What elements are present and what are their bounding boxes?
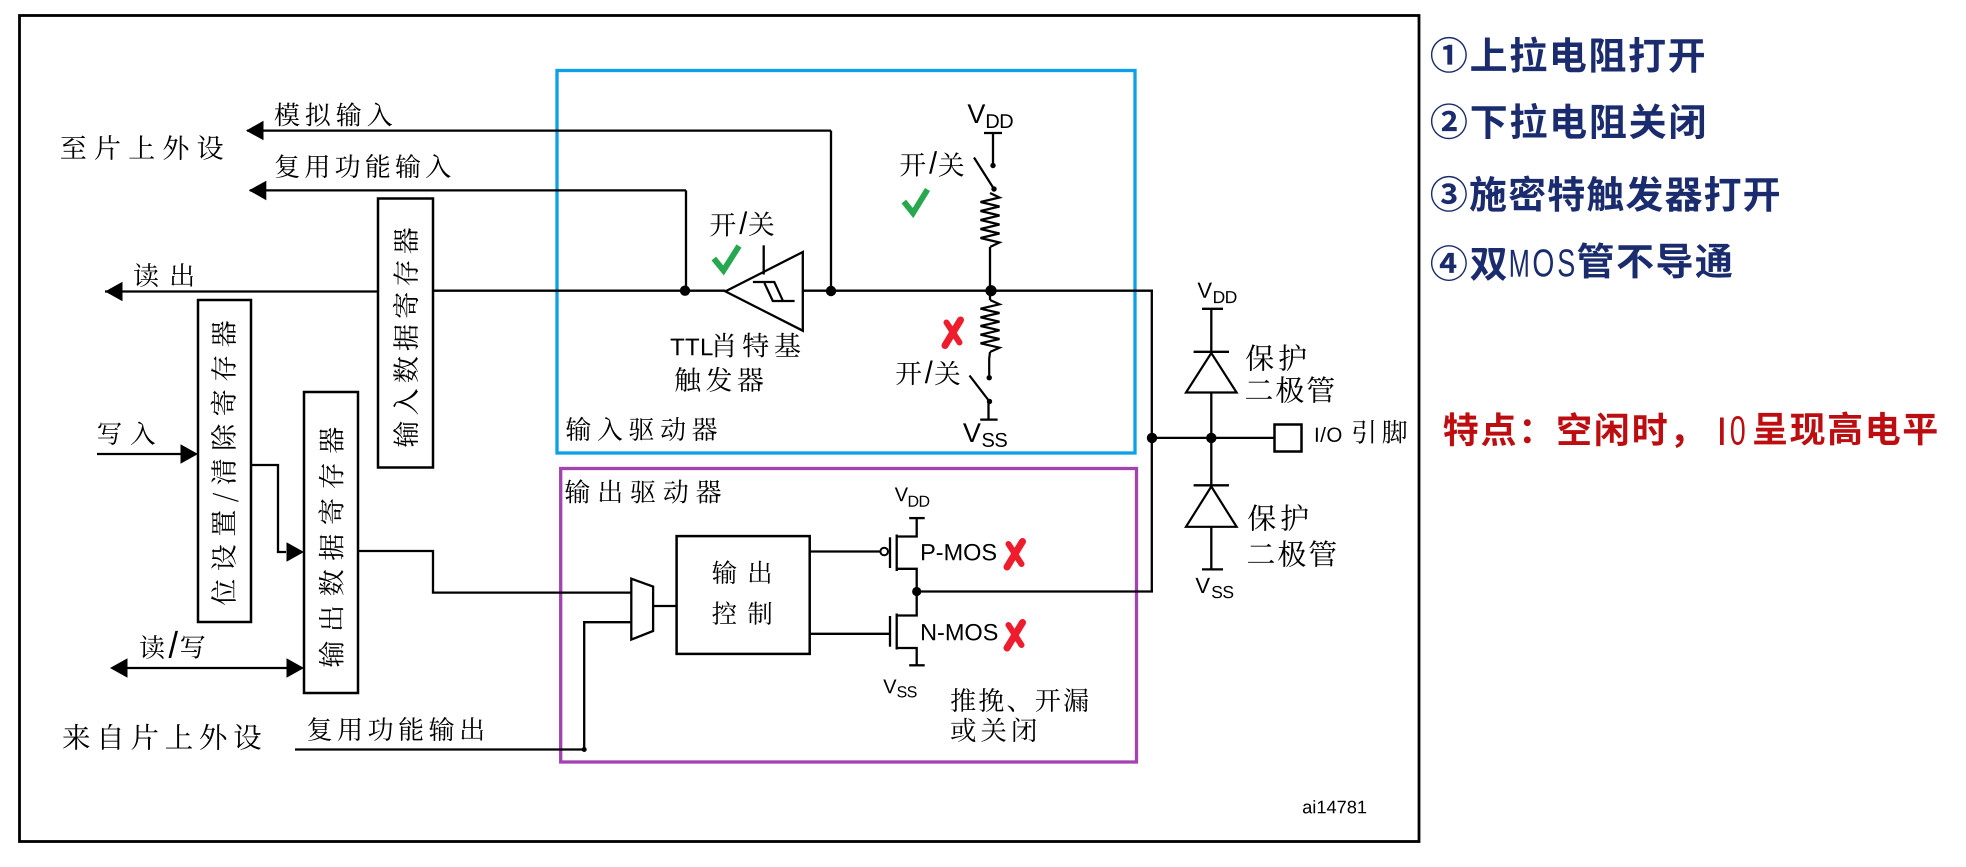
label: to on-chip peripherals xyxy=(61,135,223,160)
schmitt trigger hysteresis symbol xyxy=(753,282,783,300)
label: bit set/clear register (rotated) xyxy=(211,321,239,605)
node: IO vertical junction xyxy=(1147,433,1157,443)
label: VDD pull-up xyxy=(968,104,986,123)
register: bit set/clear xyxy=(198,300,251,622)
label: protection diode 2 xyxy=(1248,504,1308,531)
wire: mux output xyxy=(653,605,677,607)
node: AF output corner dot xyxy=(582,747,587,752)
label: TTL schmitt line1 xyxy=(671,339,713,356)
label: output control xyxy=(712,560,770,584)
wire: output register to mux xyxy=(358,551,631,593)
output control block xyxy=(677,536,810,654)
red cross: P-MOS off xyxy=(1007,542,1023,568)
pull-up switch xyxy=(990,163,995,168)
wire: vertical from analog line to trigger output xyxy=(830,131,832,291)
node: push-pull output xyxy=(912,587,921,596)
wire: read-out line xyxy=(105,290,378,292)
input driver box (blue) xyxy=(557,71,1135,454)
pull-down resistor xyxy=(989,291,991,300)
annotation 1: pull-up resistor on xyxy=(1431,36,1704,72)
pull-down switch xyxy=(987,375,992,380)
wire: alternate function input line xyxy=(250,189,686,191)
schmitt trigger: TTL xyxy=(725,252,802,331)
red cross: N-MOS off xyxy=(1007,623,1023,649)
wire: write arrow xyxy=(97,453,182,455)
VDD terminal of pull-up xyxy=(984,132,1002,134)
annotation 3: schmitt trigger on xyxy=(1431,175,1779,211)
node: trigger input xyxy=(680,286,690,296)
P-MOS plates xyxy=(889,537,891,568)
label: TTL schmitt line2 xyxy=(675,367,763,392)
label: protection diode 1 xyxy=(1246,344,1306,371)
label: output driver xyxy=(565,479,721,503)
label: VDD diodes xyxy=(1197,283,1211,298)
label: on/off schmitt xyxy=(711,213,736,237)
wire: trigger output to IO column xyxy=(803,290,1153,292)
label: read/write xyxy=(140,635,164,659)
wire: bit-set register to output register xyxy=(251,465,286,552)
label: I/O pin xyxy=(1316,427,1341,442)
VSS terminal of pull-down xyxy=(987,402,989,420)
VDD terminal above diode D1 xyxy=(1202,308,1223,310)
VSS terminal below diode D2 xyxy=(1210,527,1212,570)
wire: IO branch to pad xyxy=(1152,437,1274,439)
label: read out xyxy=(134,263,193,287)
label: N-MOS xyxy=(922,624,997,641)
label: write xyxy=(98,421,155,444)
label: on/off pull-up xyxy=(900,153,925,177)
pull-up resistor xyxy=(981,193,1000,247)
N-MOS drain xyxy=(897,592,917,616)
annotation 2: pull-down resistor off xyxy=(1431,103,1704,139)
P-MOS source to VDD xyxy=(897,518,917,536)
red cross: pull-down disabled xyxy=(945,320,961,346)
label: VSS diodes xyxy=(1195,578,1209,593)
annotation: feature idle IO high xyxy=(1444,412,1684,448)
schmitt trigger on/off control stub xyxy=(763,245,765,274)
I/O pad square xyxy=(1275,425,1302,452)
node: diode column junction xyxy=(1206,433,1216,443)
register: output data xyxy=(304,392,358,693)
wire: vertical to trigger input xyxy=(685,190,687,290)
label: analog input xyxy=(275,102,393,126)
label: P-MOS xyxy=(922,544,996,561)
node: trigger output xyxy=(826,286,836,296)
protection diode D1 xyxy=(1194,351,1229,353)
wire: analog input line xyxy=(247,129,831,131)
wire: IO net vertical xyxy=(1151,290,1153,592)
annotation 4: both MOS off xyxy=(1431,245,1506,281)
N-MOS plates xyxy=(889,616,891,647)
label: output data register (rotated) xyxy=(318,427,343,666)
output driver box (purple) xyxy=(561,469,1137,763)
label: on/off pull-down xyxy=(896,361,921,385)
label: VSS nmos xyxy=(883,680,896,694)
frame: diagram outer border xyxy=(20,16,1420,842)
register: input data xyxy=(378,199,433,468)
label: push-pull open-drain xyxy=(951,688,1088,712)
P-MOS drain xyxy=(897,569,917,592)
label: VDD pmos xyxy=(895,488,908,502)
label: input driver xyxy=(566,417,717,441)
label: VSS pull-down xyxy=(963,423,981,442)
transistor P-MOS: gate wire and bubble xyxy=(810,550,881,552)
green check: pull-up enabled xyxy=(904,190,928,214)
node: pull mid junction xyxy=(985,285,996,296)
mux trapezoid xyxy=(631,579,653,640)
label: alternate function output xyxy=(308,717,483,741)
transistor N-MOS: gate wire xyxy=(810,633,890,635)
label: input data register (rotated) xyxy=(393,228,418,447)
protection diode D2 xyxy=(1210,438,1212,485)
wire: MOS drain to IO net xyxy=(917,590,1153,592)
label: from on-chip peripherals xyxy=(63,724,261,750)
label: alternate function input xyxy=(276,154,451,178)
wire: alternate function output xyxy=(295,622,631,749)
wire: read/write double arrow xyxy=(126,667,288,669)
N-MOS source to VSS xyxy=(897,648,917,665)
label: ai14781 xyxy=(1303,800,1366,813)
green check: schmitt trigger enabled xyxy=(714,246,739,271)
